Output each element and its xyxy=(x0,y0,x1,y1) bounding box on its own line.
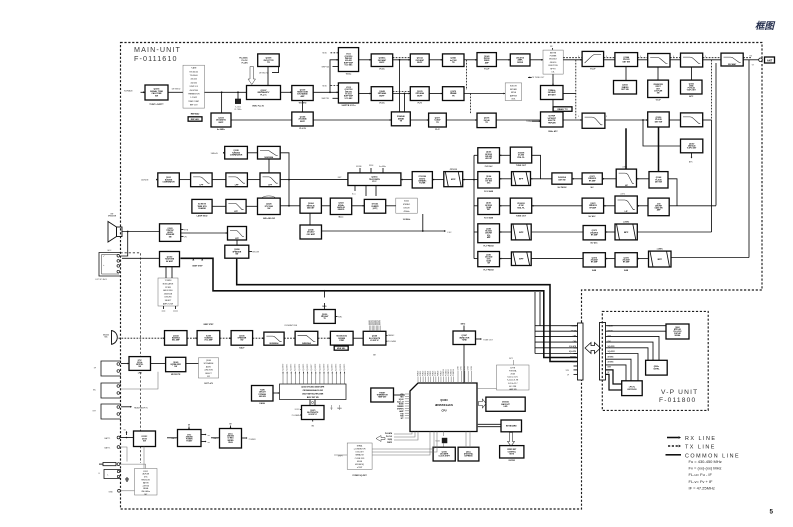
svg-text:9kV PASS2: 9kV PASS2 xyxy=(558,186,567,189)
svg-text:SQL/DET7: SQL/DET7 xyxy=(311,364,313,371)
svg-text:SELECT: SELECT xyxy=(165,300,172,302)
label DETMOD xyxy=(172,89,181,91)
boxed label REF ADJ xyxy=(188,117,202,121)
low pass filter FL1 with curve xyxy=(582,51,604,70)
svg-text:SQL/DET0: SQL/DET0 xyxy=(282,364,284,371)
wire Q1018 to reference list xyxy=(168,91,183,93)
svg-text:SOFT uPS: SOFT uPS xyxy=(204,383,213,385)
label TX8M left xyxy=(526,120,540,123)
svg-text:PORT/5A: PORT/5A xyxy=(509,369,517,372)
label TX TUNE OUT xyxy=(528,77,545,80)
transistor Q1008 shift register xyxy=(258,54,280,67)
wire row vertical drops mid xyxy=(467,60,471,113)
voc amp IC xyxy=(197,324,220,345)
svg-text:MODULE: MODULE xyxy=(549,59,557,61)
svg-text:SQL/DET3: SQL/DET3 xyxy=(336,364,338,371)
buffer Q1048 xyxy=(292,112,313,130)
svg-text:GND: GND xyxy=(109,491,114,493)
wire buff row2 a xyxy=(393,91,411,94)
codec wide box with pin comb xyxy=(280,364,347,400)
svg-text:MICMUTE: MICMUTE xyxy=(171,374,181,376)
io expander Q1070 xyxy=(302,406,325,428)
CPU left pin comb xyxy=(397,394,410,420)
svg-text:K-21.0v 21.7M: K-21.0v 21.7M xyxy=(507,380,519,382)
xtal filter box Q1T xyxy=(510,147,531,167)
svg-text:Q1002 DT/C4053 455kHzBFR: Q1002 DT/C4053 455kHzBFR xyxy=(301,385,325,388)
svg-text:PLL IN: PLL IN xyxy=(299,128,306,130)
connector input wires from main xyxy=(535,292,578,354)
svg-text:9kV AGC: 9kV AGC xyxy=(590,242,598,245)
svg-text:DASH: DASH xyxy=(259,402,265,405)
wires cpu to serial box xyxy=(372,432,437,456)
svg-text:SQL: SQL xyxy=(487,235,490,237)
svg-text:X1001: X1001 xyxy=(435,441,440,443)
wire q1073 left to rxcol xyxy=(532,231,583,233)
svg-text:SW: SW xyxy=(207,376,210,378)
TX bus vertical dashed xyxy=(575,60,577,120)
tank/doubler Q1009 xyxy=(292,86,313,105)
svg-text:PL-CLK: PL-CLK xyxy=(386,436,393,438)
svg-text:ELECTR: ELECTR xyxy=(510,86,517,88)
svg-text:TUNE OUT: TUNE OUT xyxy=(516,215,527,217)
svg-text:T/16MHz: T/16MHz xyxy=(298,103,306,105)
svg-text:CNTRL: CNTRL xyxy=(653,368,660,370)
svg-text:TUNE: TUNE xyxy=(462,340,468,342)
bias box grey xyxy=(505,83,521,101)
wire miclpf1 to miclpf2 xyxy=(284,337,295,339)
svg-text:CHANGE: CHANGE xyxy=(198,207,207,210)
wires IF IC bottom taps xyxy=(352,186,376,197)
wire IF IC left xyxy=(288,179,348,181)
vp wire L10 heavy xyxy=(606,374,622,390)
svg-text:AM DET: AM DET xyxy=(307,207,315,210)
rx amp Q1074 xyxy=(583,253,605,272)
label 9MHz IN xyxy=(211,152,225,155)
wire Q1044 to FL2 xyxy=(638,58,648,60)
wire speaker to audio sw xyxy=(122,231,160,233)
svg-text:BRT/LED: BRT/LED xyxy=(674,329,682,331)
connector pin labels main side xyxy=(565,324,576,376)
svg-text:STEP 12.5: STEP 12.5 xyxy=(189,86,197,88)
node X2/MAIN input label xyxy=(124,90,145,94)
svg-text:DT/MIX: DT/MIX xyxy=(165,287,172,289)
svg-text:AMP/SW: AMP/SW xyxy=(510,94,517,97)
svg-text:NJM2904: NJM2904 xyxy=(270,342,280,345)
ext jack bracket 1 xyxy=(94,361,121,376)
svg-text:MODE: MODE xyxy=(399,404,404,406)
label HEADS AMP IN xyxy=(121,406,148,410)
vp wire L3 xyxy=(606,336,660,360)
svg-text:BATT1: BATT1 xyxy=(105,437,111,440)
svg-text:xxx: xxx xyxy=(208,435,211,437)
svg-text:NOISE: NOISE xyxy=(356,166,362,168)
svg-text:TX/MT LOWPTT: TX/MT LOWPTT xyxy=(149,104,164,106)
wire jack2 to equalizer xyxy=(121,372,158,389)
svg-text:AF AMP: AF AMP xyxy=(166,260,174,263)
svg-text:BPF: BPF xyxy=(658,259,663,261)
svg-text:DIMMER: DIMMER xyxy=(397,406,404,408)
wire batt1 to dcdc xyxy=(120,437,134,439)
dc plug symbol xyxy=(99,463,120,466)
VCO unit 1 (RX) Q1015 xyxy=(338,48,358,76)
wire branch up to VCO1 xyxy=(329,59,338,93)
svg-text:SQL/DET5: SQL/DET5 xyxy=(344,364,346,371)
svg-text:ATT/DET: ATT/DET xyxy=(548,93,557,96)
wire rx input bpf left xyxy=(500,231,512,233)
wire ptt to equalizer xyxy=(151,363,166,365)
svg-text:Q1081: Q1081 xyxy=(486,255,491,257)
svg-text:RF AMP: RF AMP xyxy=(591,261,598,264)
wire cpu to q16xx xyxy=(466,432,470,448)
ptt switch Q1063 xyxy=(129,357,151,375)
svg-text:DSP/2: DSP/2 xyxy=(387,442,392,444)
svg-text:DET SW: DET SW xyxy=(623,62,631,64)
svg-text:NJM2904: NJM2904 xyxy=(265,156,275,159)
wire FL3 to LPF4 xyxy=(703,58,721,60)
wire batt2 bend xyxy=(120,447,127,462)
wire plug to fuse box xyxy=(120,464,146,468)
svg-text:FUNCTION: FUNCTION xyxy=(548,65,558,67)
comparator Q1031 xyxy=(158,173,180,187)
svg-text:DATA/C: DATA/C xyxy=(388,334,395,337)
fuse filter grey box xyxy=(135,469,158,497)
antenna connector xyxy=(759,58,763,62)
svg-text:SQL/DET8: SQL/DET8 xyxy=(315,364,317,371)
comparator Q1028 xyxy=(225,146,248,159)
svg-text:TUNE OUT: TUNE OUT xyxy=(483,340,494,342)
svg-text:SHIFT: SHIFT xyxy=(338,456,344,458)
svg-text:2SB/2SD: 2SB/2SD xyxy=(227,436,235,438)
svg-text:CLONE 1201: CLONE 1201 xyxy=(355,458,365,460)
svg-text:DT/2x DET: DT/2x DET xyxy=(356,452,364,454)
sp jack bracket xyxy=(96,253,122,281)
label SHIFT/B xyxy=(322,98,339,100)
svg-text:TX/DET: TX/DET xyxy=(186,441,193,443)
V-P unit title xyxy=(659,389,698,404)
svg-text:5MHz: 5MHz xyxy=(461,324,466,326)
wire q1035 to miclpf1 xyxy=(253,337,264,339)
speaker sw Q1035 xyxy=(231,331,253,350)
vp pin labels xyxy=(608,324,616,373)
svg-text:uCONT: uCONT xyxy=(357,467,362,469)
rf amp Q1073 xyxy=(583,226,605,245)
svg-text:SQL/DET5: SQL/DET5 xyxy=(303,364,305,371)
svg-text:5V/X4: 5V/X4 xyxy=(471,366,473,370)
svg-text:SQL/DET0: SQL/DET0 xyxy=(323,364,325,371)
svg-text:MOD: MOD xyxy=(323,53,328,55)
svg-text:430-450: 430-450 xyxy=(550,62,556,64)
boxed label READY TX xyxy=(553,107,572,112)
label DET/BLOW xyxy=(259,67,279,75)
IF IC Q1014 main xyxy=(348,173,401,186)
wire modbox up xyxy=(166,267,172,278)
svg-text:SHIFT/A: SHIFT/A xyxy=(322,65,330,68)
vertical drop 626 xyxy=(625,128,627,169)
svg-text:STEREO: STEREO xyxy=(403,204,411,206)
svg-text:THERMISTOR: THERMISTOR xyxy=(188,94,200,96)
svg-text:DIS/CHG: DIS/CHG xyxy=(165,297,173,299)
ceramic lpf DT1041 xyxy=(364,199,385,213)
wire q1075 to q1074 xyxy=(605,258,615,260)
svg-text:9kBB: 9kBB xyxy=(592,270,597,272)
svg-text:TXLED: TXLED xyxy=(571,331,577,333)
driver stage Q1042 xyxy=(510,54,530,66)
reference frequency list box xyxy=(183,65,205,108)
svg-text:MC/3362: MC/3362 xyxy=(485,231,492,233)
labels 9MHz APC xyxy=(548,130,558,133)
buffer Q1046a xyxy=(371,54,393,71)
wire FL2 down to CR box xyxy=(657,67,659,80)
svg-text:GEN SW: GEN SW xyxy=(259,396,266,398)
backlight LED box xyxy=(486,397,525,411)
svg-text:I/O EXP IC: I/O EXP IC xyxy=(370,340,379,342)
svg-text:1:2.5K/2: 1:2.5K/2 xyxy=(190,97,197,99)
svg-text:9MHzIN: 9MHzIN xyxy=(211,153,218,155)
svg-text:PLL IC: PLL IC xyxy=(260,95,267,97)
dash generator TC4W xyxy=(252,386,274,406)
svg-text:CNTL: CNTL xyxy=(511,99,515,101)
amp Q1079 row2 xyxy=(443,87,465,101)
svg-text:BPF: BPF xyxy=(519,259,524,261)
svg-text:MODULATOR: MODULATOR xyxy=(163,283,174,286)
wire drive to module xyxy=(530,59,543,61)
wire Q1T right bend xyxy=(532,155,541,179)
svg-text:CLOCK SHIFT: CLOCK SHIFT xyxy=(439,456,451,458)
bpf trap rx input xyxy=(511,224,531,240)
wire thermistor to cpu xyxy=(394,394,405,396)
buffer Q1076 xyxy=(410,87,429,105)
svg-text:RF AMP: RF AMP xyxy=(623,261,630,264)
svg-text:CX/DATA/TONE: CX/DATA/TONE xyxy=(284,324,298,327)
vp control box xyxy=(646,360,668,375)
rx amp Q1075 xyxy=(615,253,637,272)
svg-text:HD6P2034xxF/G: HD6P2034xxF/G xyxy=(435,404,453,407)
label JACK above xyxy=(107,249,112,252)
svg-text:16.9MHz: 16.9MHz xyxy=(403,219,411,221)
svg-text:BEEP STEP: BEEP STEP xyxy=(204,324,215,326)
svg-text:455kHz/2B: 455kHz/2B xyxy=(164,293,173,295)
speaker symbol xyxy=(108,214,122,243)
svg-text:Fu = 430-450 MHz: Fu = 430-450 MHz xyxy=(689,459,722,464)
svg-text:VCO SEC: VCO SEC xyxy=(345,98,354,100)
svg-text:FL/V PASS2: FL/V PASS2 xyxy=(484,269,494,272)
power terminal GND xyxy=(109,489,135,493)
svg-text:V APC DET: V APC DET xyxy=(687,89,697,92)
wire equalizer to soft xyxy=(186,363,199,365)
svg-text:LAMP MOD: LAMP MOD xyxy=(197,214,208,217)
rx det Q1080 xyxy=(478,224,500,248)
wire LPF4 to antenna xyxy=(743,58,759,60)
svg-text:V APC DET: V APC DET xyxy=(687,147,697,150)
equalizer Q1065 xyxy=(166,357,186,376)
bpf trap rx input2 xyxy=(511,252,531,266)
wire Q1027 feedback right xyxy=(280,153,289,206)
wire bpfmid2 q1072 xyxy=(604,205,615,207)
svg-text:REF OUT: REF OUT xyxy=(190,105,199,107)
wire comp to lpfA xyxy=(179,179,190,181)
svg-text:BPF: BPF xyxy=(519,178,524,180)
svg-text:9kHz: 9kHz xyxy=(338,317,342,319)
wire DT1041 to X1042 xyxy=(386,205,396,207)
af lpf xyxy=(228,227,247,241)
vp wire L7 xyxy=(606,359,632,381)
wire row1 b xyxy=(429,59,442,61)
svg-text:431.025: 431.025 xyxy=(191,79,197,81)
vp display box Q5001 xyxy=(666,324,689,339)
svg-text:MAIN-UNIT: MAIN-UNIT xyxy=(134,45,181,54)
svg-text:CMOS/4066 ANALOG SW: CMOS/4066 ANALOG SW xyxy=(303,389,324,392)
svg-text:TC4W53: TC4W53 xyxy=(165,280,172,282)
clock shift Q1006 xyxy=(433,447,455,461)
svg-text:SQL/DET6: SQL/DET6 xyxy=(307,364,309,371)
svg-text:MOD: MOD xyxy=(323,85,328,87)
VCO unit 2 (TX) Q1017 xyxy=(338,83,358,107)
wire input to Q1018 xyxy=(141,91,146,93)
state detector box xyxy=(500,446,524,463)
labels SP/A uPx xyxy=(181,228,189,238)
pin comb P1 with labels xyxy=(369,320,382,331)
svg-text:BPF: BPF xyxy=(624,232,629,234)
fet J310 xyxy=(648,198,669,216)
rx bpf Q1056 xyxy=(648,112,670,127)
rx amp Q1031b xyxy=(478,198,500,219)
svg-text:AUDIO FILE: AUDIO FILE xyxy=(163,289,173,292)
audio amp TDA xyxy=(160,252,180,267)
wire apc row2 to bus xyxy=(563,93,576,95)
vp keyphone box xyxy=(622,381,643,396)
vertical line net B xyxy=(715,63,717,206)
modulator grey box xyxy=(158,278,178,313)
low pass filter FL3 xyxy=(681,53,703,67)
wire PLL to tank xyxy=(281,91,292,93)
det sw Q1048b xyxy=(649,172,668,188)
wire rxcol vertical xyxy=(473,155,478,258)
5V regulator xyxy=(211,424,256,449)
soft control grey box xyxy=(198,358,218,385)
svg-text:SW: SW xyxy=(155,96,158,98)
lpf block A xyxy=(191,173,213,187)
legend RX LINE xyxy=(667,436,716,442)
svg-text:FL/V PASS2: FL/V PASS2 xyxy=(484,245,494,248)
heavy audio bus 2 xyxy=(180,258,578,357)
wire list to PLL xyxy=(205,91,247,93)
wire VCO1 out xyxy=(359,59,372,61)
svg-text:5V(B): 5V(B) xyxy=(388,439,393,441)
wire jack to af amp xyxy=(122,257,160,259)
svg-text:2SK/FET: 2SK/FET xyxy=(485,233,492,235)
ground symbol xyxy=(125,477,129,481)
svg-text:9MHz APC: 9MHz APC xyxy=(548,130,558,133)
wire module to LPF row1 xyxy=(563,58,582,61)
svg-text:BUFF: BUFF xyxy=(379,96,385,98)
svg-text:SERIES: SERIES xyxy=(227,440,234,442)
rx amp Q1004 xyxy=(478,172,500,193)
CPU Q1003 xyxy=(410,383,477,432)
svg-text:SW: SW xyxy=(174,366,177,368)
svg-text:KEYBOARD: KEYBOARD xyxy=(506,425,517,428)
power terminal BATT1 b xyxy=(105,446,120,450)
svg-text:5V/TR: 5V/TR xyxy=(510,367,516,369)
microphone symbol xyxy=(103,331,117,345)
svg-text:xxxx: xxxx xyxy=(162,311,166,313)
inter-unit double arrow xyxy=(585,343,601,354)
svg-text:EXT SP JACK: EXT SP JACK xyxy=(96,278,108,281)
wire af lpf drop xyxy=(236,240,238,245)
svg-text:CTL: CTL xyxy=(551,72,554,74)
svg-text:SQL/L-M: SQL/L-M xyxy=(397,401,404,403)
det sw FL2035A xyxy=(552,173,572,189)
svg-text:XTAL FIL: XTAL FIL xyxy=(517,206,525,209)
svg-text:DRIVE: DRIVE xyxy=(511,92,517,94)
amp Q1077 row3 xyxy=(429,113,447,131)
svg-text:DET SW: DET SW xyxy=(655,182,662,184)
wire q1071 to fl xyxy=(572,178,582,180)
svg-text:F-0111610: F-0111610 xyxy=(134,54,178,63)
svg-text:IF IC: IF IC xyxy=(372,181,377,183)
svg-text:BUFF: BUFF xyxy=(379,62,385,64)
junction dot A xyxy=(221,91,223,93)
wire row2 c xyxy=(464,93,505,95)
svg-text:PLL/LOCK: PLL/LOCK xyxy=(674,331,683,333)
svg-text:T/xxF: T/xxF xyxy=(484,69,490,71)
svg-text:MCF: MCF xyxy=(451,179,456,181)
wire fl2035a to bpf1 xyxy=(531,178,552,180)
wire bpf3 to q1075 xyxy=(637,258,648,260)
svg-text:TUNE OUT: TUNE OUT xyxy=(516,165,527,167)
svg-text:FL/V: FL/V xyxy=(435,129,440,131)
rx amp Q1005 xyxy=(478,148,500,168)
svg-text:5V/X3: 5V/X3 xyxy=(468,366,470,370)
wire Q1008 to PLL xyxy=(267,67,269,86)
svg-text:KEYPHON: KEYPHON xyxy=(628,389,638,391)
svg-text:SHIFT/B VCOu: SHIFT/B VCOu xyxy=(342,105,357,107)
svg-text:BATT1: BATT1 xyxy=(105,447,111,450)
amp Q1041 row1 xyxy=(443,54,465,67)
svg-text:XTAL FIL: XTAL FIL xyxy=(517,156,525,159)
keyboard box xyxy=(501,420,522,432)
page title stamp (Chinese) top right xyxy=(755,20,776,32)
vp unit connector strip xyxy=(600,323,606,381)
svg-text:DRIVE: DRIVE xyxy=(517,62,524,64)
wire rxcol to MCF xyxy=(463,179,478,181)
svg-text:DET/ADJ: DET/ADJ xyxy=(510,88,517,91)
svg-text:DET SW: DET SW xyxy=(558,179,565,181)
svg-text:OSC AMP: OSC AMP xyxy=(307,233,316,236)
svg-text:F-011800: F-011800 xyxy=(659,397,696,404)
svg-text:Fv = (xx)-(xx) MHz: Fv = (xx)-(xx) MHz xyxy=(689,466,722,471)
tank X2 block xyxy=(192,199,212,217)
svg-text:VCOu: VCOu xyxy=(379,69,385,71)
tx mod Q1050 xyxy=(314,290,342,324)
PLL IC Q1007 xyxy=(247,86,281,100)
low pass filter FL2 xyxy=(648,54,670,68)
label RF above module xyxy=(550,46,553,50)
svg-text:LAMP SW: LAMP SW xyxy=(509,388,517,391)
svg-text:4x.xMHz: 4x.xMHz xyxy=(379,166,386,168)
svg-text:VCO SEC: VCO SEC xyxy=(345,64,354,66)
svg-text:BELOW: BELOW xyxy=(253,252,260,254)
wire J310 bpfmid2 xyxy=(637,205,648,207)
svg-text:NJM2904: NJM2904 xyxy=(302,342,312,345)
svg-text:Q10xx: Q10xx xyxy=(228,434,233,436)
wire Q1072 to Q2T xyxy=(532,205,582,207)
svg-text:SW: SW xyxy=(169,236,172,238)
svg-text:IF = 47.25MHz: IF = 47.25MHz xyxy=(689,485,715,490)
expander Q16xx xyxy=(458,447,479,461)
wire FL2 to FL3 xyxy=(670,58,681,60)
svg-text:STEP/TN: STEP/TN xyxy=(397,409,404,411)
svg-text:9MHz PLL IN: 9MHz PLL IN xyxy=(252,105,264,107)
